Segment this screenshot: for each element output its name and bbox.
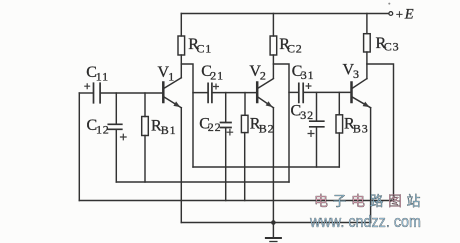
transistor V3: [350, 83, 353, 103]
ground stem: [272, 223, 274, 237]
wire RB2 top: [244, 93, 246, 116]
svg-text:C1: C1: [196, 41, 212, 55]
speck above +E: [388, 3, 390, 5]
arrow V3 emitter: [363, 102, 370, 108]
svg-text:B2: B2: [259, 121, 275, 135]
transistor V2: [256, 83, 259, 103]
wire V3 emitter down: [370, 108, 372, 223]
wire C11 left: [79, 92, 92, 94]
junction dot at ground bus / V2 emitter: [271, 220, 276, 225]
plus C22: [227, 129, 234, 136]
plus C11: [84, 83, 90, 89]
wire C31 left: [289, 91, 298, 93]
svg-text:21: 21: [210, 68, 224, 82]
top supply rail: [181, 13, 388, 15]
resistor RC2: [270, 36, 277, 55]
capacitor C22: [221, 123, 232, 128]
wire RB1 bottom: [144, 136, 146, 183]
arrow V1 emitter: [173, 101, 180, 107]
wire V1 emitter down: [180, 108, 182, 223]
wire RC3 top: [366, 14, 368, 34]
wire RC1 bottom to collector: [180, 55, 182, 78]
wire RC1 top: [180, 14, 182, 37]
capacitor C31: [299, 83, 303, 102]
wire C22 stem top: [225, 93, 227, 122]
svg-text:31: 31: [301, 68, 315, 82]
wire C32 stem bottom: [316, 127, 318, 167]
svg-text:B1: B1: [161, 123, 177, 137]
resistor RC3: [364, 34, 371, 52]
svg-text:电子电路图站: 电子电路图站: [314, 193, 425, 209]
wire RB2 bottom: [244, 133, 246, 201]
+E terminal circle: [389, 12, 393, 16]
svg-text:22: 22: [208, 120, 222, 134]
wire C11 right to V1 base: [101, 92, 163, 94]
resistor RB2: [241, 115, 248, 132]
svg-text:32: 32: [300, 108, 314, 122]
wire C12 stem bottom: [115, 130, 117, 183]
wire stage3 return bus: [193, 166, 339, 168]
wire RB3 top: [338, 92, 340, 114]
wire stage3 collector junction to right riser: [367, 64, 394, 201]
svg-text:www. cndzz. com: www. cndzz. com: [309, 213, 421, 231]
ground bar 1: [266, 237, 281, 239]
plus C12: [120, 134, 127, 141]
transistor V1: [162, 83, 165, 103]
svg-text:E: E: [404, 6, 414, 22]
svg-text:11: 11: [96, 70, 109, 84]
wire C21 right to V2 base: [213, 92, 256, 94]
plus C21: [213, 84, 219, 90]
capacitor C12: [108, 124, 122, 129]
wire C31 right to V3 base: [304, 91, 350, 93]
wire ground bus: [181, 222, 370, 224]
svg-text:2: 2: [260, 68, 267, 82]
svg-text:1: 1: [168, 70, 175, 84]
wire RB3 bottom: [338, 133, 340, 167]
wire input riser (feedback to C11): [78, 93, 80, 201]
svg-text:12: 12: [96, 122, 110, 136]
wire V2 emitter down: [272, 108, 274, 223]
wire RC2 top: [272, 14, 274, 37]
capacitor C21: [208, 83, 212, 102]
resistor RB1: [142, 117, 149, 136]
arrow V2 emitter: [266, 101, 273, 107]
plus C32: [308, 130, 315, 137]
svg-text:3: 3: [353, 67, 360, 81]
resistor RC1: [178, 36, 185, 55]
svg-text:C3: C3: [384, 40, 400, 54]
svg-text:B3: B3: [353, 121, 369, 135]
wire RB1 top: [144, 93, 146, 117]
svg-text:C2: C2: [287, 41, 303, 55]
wire stage1 return bus: [116, 181, 289, 183]
wire C32 stem top: [316, 93, 318, 121]
capacitor C11: [94, 83, 101, 103]
wire C22 stem bottom: [225, 128, 227, 201]
wire feedback bottom bus: [79, 200, 393, 202]
wire RC2 bottom to collector: [272, 55, 274, 78]
svg-text:+: +: [396, 6, 403, 21]
wire stage2 collector junction to C31 branch: [273, 64, 289, 182]
wire C21 left: [193, 92, 207, 94]
capacitor C32: [310, 121, 324, 127]
wire stage1 collector junction to C21 branch: [181, 64, 193, 167]
plus C31: [306, 83, 312, 89]
wire C12 stem top: [115, 93, 117, 124]
resistor RB3: [336, 115, 343, 133]
wire RC3 bottom to collector: [366, 52, 368, 79]
ground bar 2: [270, 241, 277, 243]
